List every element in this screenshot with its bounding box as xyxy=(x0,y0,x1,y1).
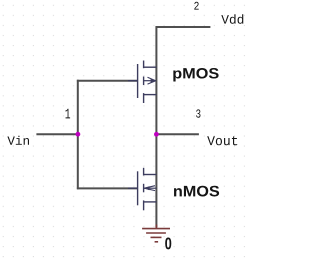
label Vout xyxy=(207,136,237,145)
ground wire stem xyxy=(155,225,157,229)
wire bottom gate xyxy=(77,187,138,189)
node number 2 xyxy=(194,2,198,10)
wire Vout xyxy=(156,133,199,135)
wire left vertical branch xyxy=(77,80,79,190)
label Vdd xyxy=(221,14,243,23)
ground node number 0 xyxy=(165,238,171,250)
wire Vin to node 1 xyxy=(36,133,78,135)
wire Vdd xyxy=(156,26,211,28)
node number 1 xyxy=(66,109,71,119)
label pMOS xyxy=(173,68,218,82)
node 1 junction dot xyxy=(76,132,81,137)
label Vin xyxy=(7,136,29,145)
pMOS bulk arrowhead xyxy=(151,79,156,83)
nMOS bulk arrowhead xyxy=(144,186,149,190)
ground symbol xyxy=(142,229,170,242)
wire right vertical main xyxy=(155,26,157,227)
transistor pMOS xyxy=(128,61,156,104)
transistor nMOS xyxy=(128,168,156,211)
grid dots (decorative) xyxy=(0,0,252,259)
wire top gate xyxy=(77,80,138,82)
node 3 junction dot xyxy=(154,132,159,137)
label nMOS xyxy=(174,186,219,197)
node number 3 xyxy=(196,109,200,117)
